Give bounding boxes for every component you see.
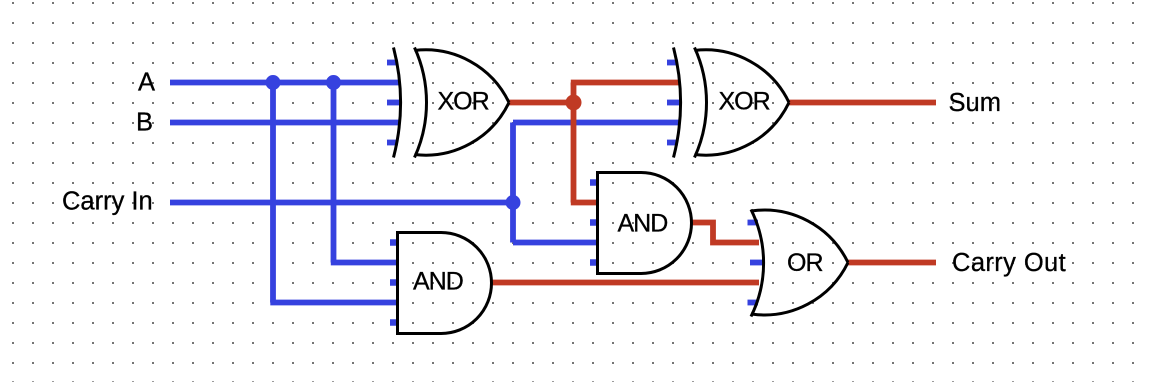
wire Carry In branch to XOR2 horizontal [513, 120, 679, 126]
svg-text:AND: AND [413, 268, 463, 296]
or-gate U5 bottom lead [751, 263, 848, 315]
wire A branch 1 horizontal to AND1 [270, 300, 397, 306]
wire XOR1-out branch up vertical x=573.5 [571, 83, 577, 203]
wire Carry In branch vertical x=513 [510, 123, 516, 243]
xor-gate U2 top lead [695, 50, 790, 103]
svg-text:AND: AND [618, 210, 668, 238]
XOR1 input stub pin 5 [387, 140, 398, 146]
AND2 input stub pin 1 [590, 179, 598, 186]
XOR2 input stub pin 3 [667, 100, 681, 106]
XOR1 input stub pin 1 [387, 60, 398, 66]
wire B horizontal [170, 120, 399, 126]
xor-gate U1 back arc outer [394, 48, 401, 158]
wire AND2 output jog [690, 223, 759, 243]
XOR2 input stub pin 5 [667, 140, 678, 146]
svg-text:XOR: XOR [438, 88, 489, 116]
AND1 input stub pin 1 [390, 239, 398, 246]
svg-text:XOR: XOR [719, 88, 770, 116]
wire Carry In branch to AND2 horizontal [513, 240, 598, 246]
OR input stub pin 5 [748, 300, 759, 306]
OR input stub pin 1 [748, 220, 759, 226]
wire XOR1 output [508, 100, 577, 106]
xor-gate U1 top lead [415, 50, 510, 103]
svg-text:OR: OR [787, 249, 823, 277]
svg-text:Carry In: Carry In [62, 188, 153, 216]
wire A branch 2 vertical x=333.5 [331, 83, 337, 263]
wire Carry In horizontal [170, 200, 513, 206]
wire A horizontal [170, 80, 399, 86]
wire Carry Out output [848, 260, 936, 266]
wire A branch 1 vertical x=273 [270, 83, 276, 303]
xor-gate U1 back arc inner [415, 48, 427, 158]
AND1 input stub pin 5 [390, 319, 398, 326]
and-gate U3 body [398, 233, 492, 334]
wire Sum output [788, 100, 936, 106]
junction Carry In branch [506, 195, 521, 210]
svg-text:A: A [138, 69, 155, 97]
wire AND1 output to OR [491, 280, 759, 286]
XOR2 input stub pin 1 [667, 60, 678, 66]
AND2 input stub pin 5 [590, 259, 598, 266]
wire XOR1-out to AND2 horizontal [571, 200, 598, 206]
AND2 input stub pin 3 [590, 219, 598, 226]
wire XOR1-out to XOR2 horizontal [571, 80, 679, 86]
xor-gate U1 bottom lead [415, 103, 510, 156]
XOR1 input stub pin 3 [387, 100, 401, 106]
junction A branch 1 [266, 75, 281, 90]
junction XOR1 output [566, 95, 582, 111]
svg-text:Carry Out: Carry Out [952, 249, 1066, 277]
and-gate U4 body [598, 173, 692, 274]
wire A branch 2 horizontal to AND1 [331, 260, 398, 266]
AND1 input stub pin 3 [390, 279, 398, 286]
OR input stub pin 3 [750, 260, 765, 266]
or-gate U5 back arc [751, 210, 764, 317]
svg-text:B: B [136, 109, 153, 137]
xor-gate U2 back arc inner [695, 48, 707, 158]
svg-text:Sum: Sum [949, 89, 1001, 117]
xor-gate U2 bottom lead [695, 103, 790, 156]
or-gate U5 top lead [751, 210, 848, 262]
junction A branch 2 [326, 75, 341, 90]
xor-gate U2 back arc outer [674, 48, 681, 158]
